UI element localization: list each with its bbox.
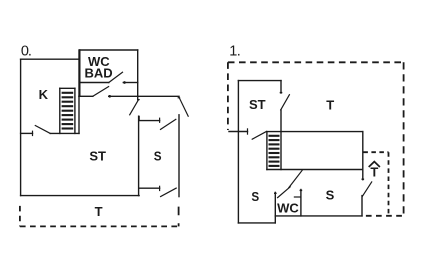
svg-text:T: T [95, 204, 103, 219]
svg-text:ST: ST [249, 97, 266, 112]
svg-text:T: T [370, 165, 378, 180]
svg-text:WC: WC [277, 200, 299, 215]
svg-text:T: T [326, 97, 334, 112]
svg-text:.: . [237, 43, 241, 59]
svg-text:ST: ST [89, 148, 106, 163]
svg-text:BAD: BAD [85, 66, 113, 81]
svg-text:K: K [39, 87, 49, 102]
svg-text:S: S [326, 187, 335, 202]
svg-text:S: S [251, 189, 259, 204]
svg-text:.: . [28, 44, 32, 60]
svg-text:S: S [154, 149, 162, 164]
